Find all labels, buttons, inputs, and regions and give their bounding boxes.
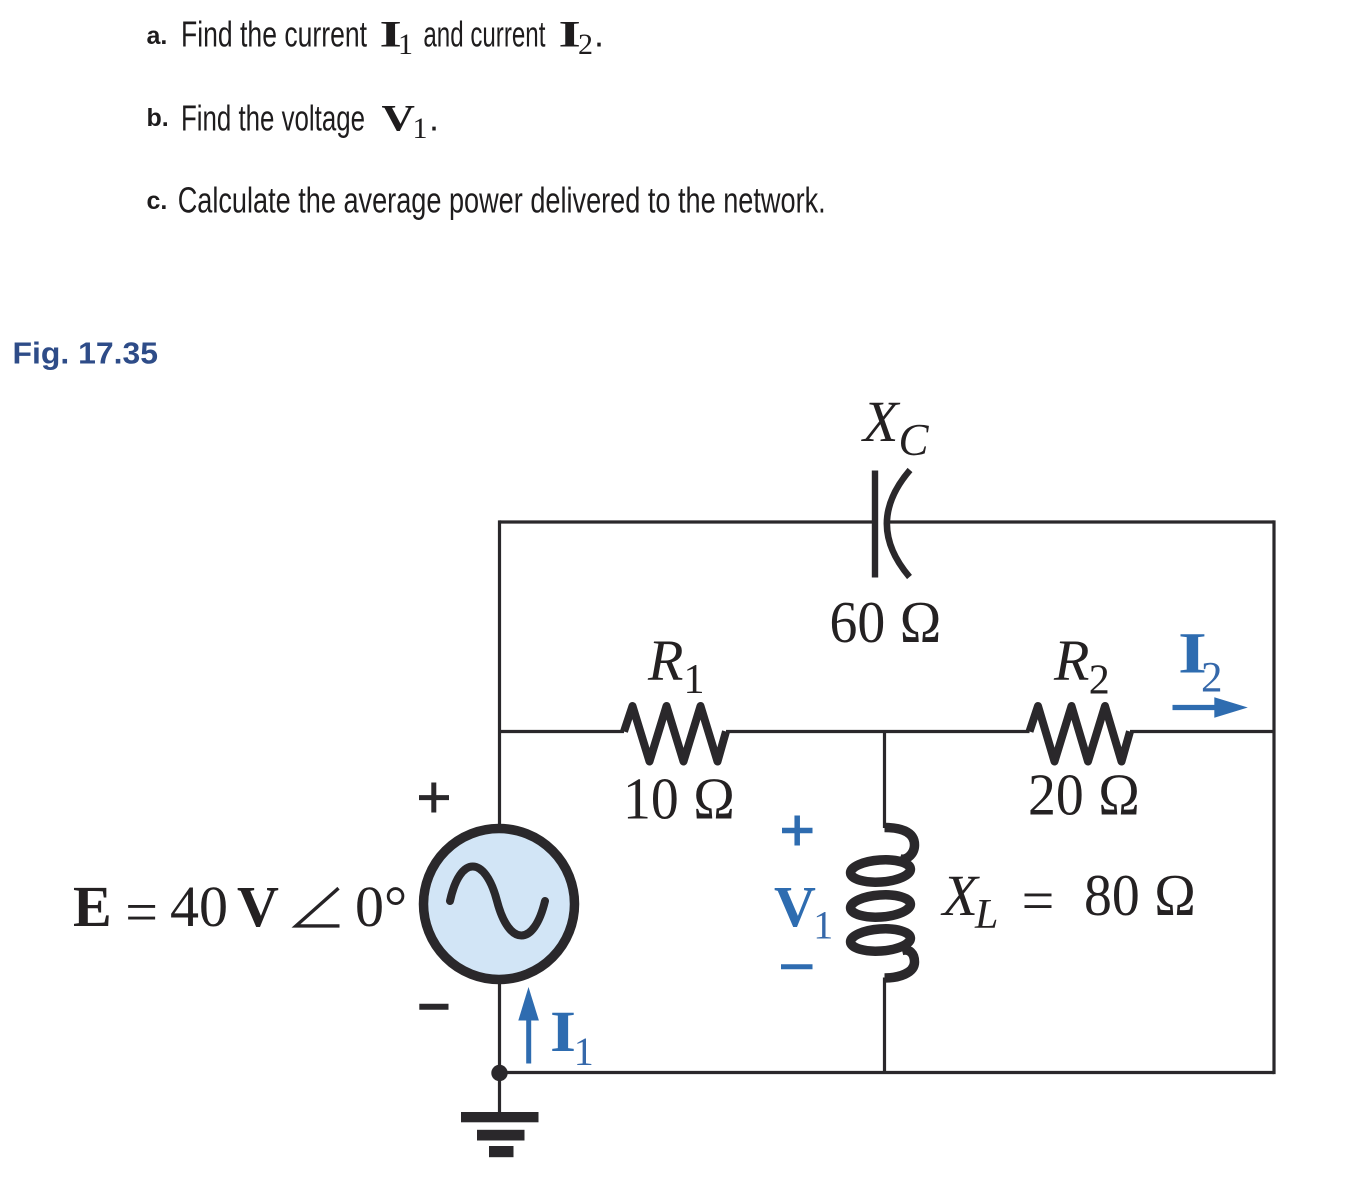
svg-text:Calculate the average power de: Calculate the average power delivered to… xyxy=(178,180,826,221)
svg-text:c.: c. xyxy=(147,187,168,215)
svg-text:a.: a. xyxy=(147,22,168,50)
svg-text:R: R xyxy=(647,628,683,693)
svg-text:40: 40 xyxy=(170,874,228,939)
svg-text:20 Ω: 20 Ω xyxy=(1028,762,1141,828)
svg-text:1: 1 xyxy=(684,657,705,703)
svg-text:I: I xyxy=(550,999,576,1064)
svg-text:Find the current: Find the current xyxy=(181,13,367,54)
svg-text:Fig. 17.35: Fig. 17.35 xyxy=(13,336,159,371)
svg-text:.: . xyxy=(594,13,604,54)
svg-text:V: V xyxy=(382,99,415,140)
svg-text:0°: 0° xyxy=(355,874,407,939)
svg-text:80 Ω: 80 Ω xyxy=(1084,862,1197,928)
svg-text:60 Ω: 60 Ω xyxy=(830,589,943,655)
svg-text:E: E xyxy=(73,874,112,939)
svg-text:1: 1 xyxy=(574,1029,594,1074)
svg-text:X: X xyxy=(861,389,901,454)
svg-text:C: C xyxy=(899,415,930,465)
svg-text:1: 1 xyxy=(813,903,833,948)
svg-text:Find the voltage: Find the voltage xyxy=(181,98,365,139)
svg-text:R: R xyxy=(1053,628,1089,693)
svg-text:2: 2 xyxy=(1201,654,1223,701)
svg-text:=: = xyxy=(1022,868,1055,933)
svg-text:V: V xyxy=(774,874,816,939)
svg-text:1: 1 xyxy=(398,28,413,61)
svg-text:10 Ω: 10 Ω xyxy=(623,766,736,832)
svg-text:2: 2 xyxy=(578,28,593,61)
svg-text:=: = xyxy=(125,880,158,945)
svg-text:b.: b. xyxy=(147,104,169,132)
svg-text:.: . xyxy=(429,98,439,139)
svg-text:1: 1 xyxy=(413,112,428,145)
svg-text:and current: and current xyxy=(423,13,545,54)
svg-text:L: L xyxy=(974,892,998,938)
svg-text:V: V xyxy=(237,874,279,939)
svg-text:2: 2 xyxy=(1089,658,1110,704)
